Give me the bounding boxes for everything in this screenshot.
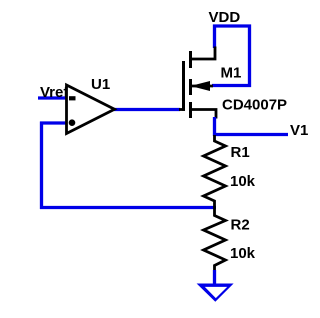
wire feedback bottom horizontal from R1-R2 node [40, 206, 216, 209]
transistor M1 drain lead [191, 47, 216, 60]
op-amp U1 minus sign (inverting input) [69, 96, 76, 100]
svg-text:10k: 10k [230, 245, 256, 262]
svg-text:V1: V1 [290, 122, 308, 139]
transistor M1 body arrow [193, 82, 210, 91]
svg-text:R2: R2 [231, 217, 250, 234]
wire M1 source to V1 node vertical [213, 117, 216, 136]
wire R2 to ground [213, 270, 216, 285]
transistor M1 gate lead black segment [179, 108, 185, 111]
ground symbol [197, 284, 234, 302]
transistor M1 source contact stub [189, 102, 192, 118]
op-amp U1 triangle [67, 85, 115, 134]
wire U1 non-inverting input horizontal [40, 121, 67, 124]
op-amp U1 plus sign (non-inverting input) [69, 119, 76, 126]
wire feedback left vertical [40, 122, 43, 210]
svg-text:CD4007P: CD4007P [222, 97, 287, 114]
wire VDD loop (drain riser to VDD rail to body terminal) [212, 26, 250, 86]
svg-text:R1: R1 [231, 144, 250, 161]
transistor M1 source lead [191, 110, 217, 119]
transistor M1 body lead [192, 85, 213, 88]
svg-text:VDD: VDD [209, 9, 241, 26]
transistor M1 gate bar [182, 61, 185, 111]
transistor M1 drain contact stub [189, 51, 192, 68]
wire Vref input stub to U1 inverting input [38, 96, 67, 99]
resistor R2 zigzag [204, 209, 226, 272]
svg-text:U1: U1 [91, 76, 110, 93]
wire V1 output horizontal [213, 133, 288, 136]
svg-text:10k: 10k [230, 173, 256, 190]
resistor R1 zigzag [204, 135, 226, 209]
wire U1 output to M1 gate [114, 108, 180, 111]
transistor M1 body contact stub [189, 79, 192, 95]
svg-text:M1: M1 [221, 65, 242, 82]
svg-text:Vref: Vref [40, 84, 69, 101]
